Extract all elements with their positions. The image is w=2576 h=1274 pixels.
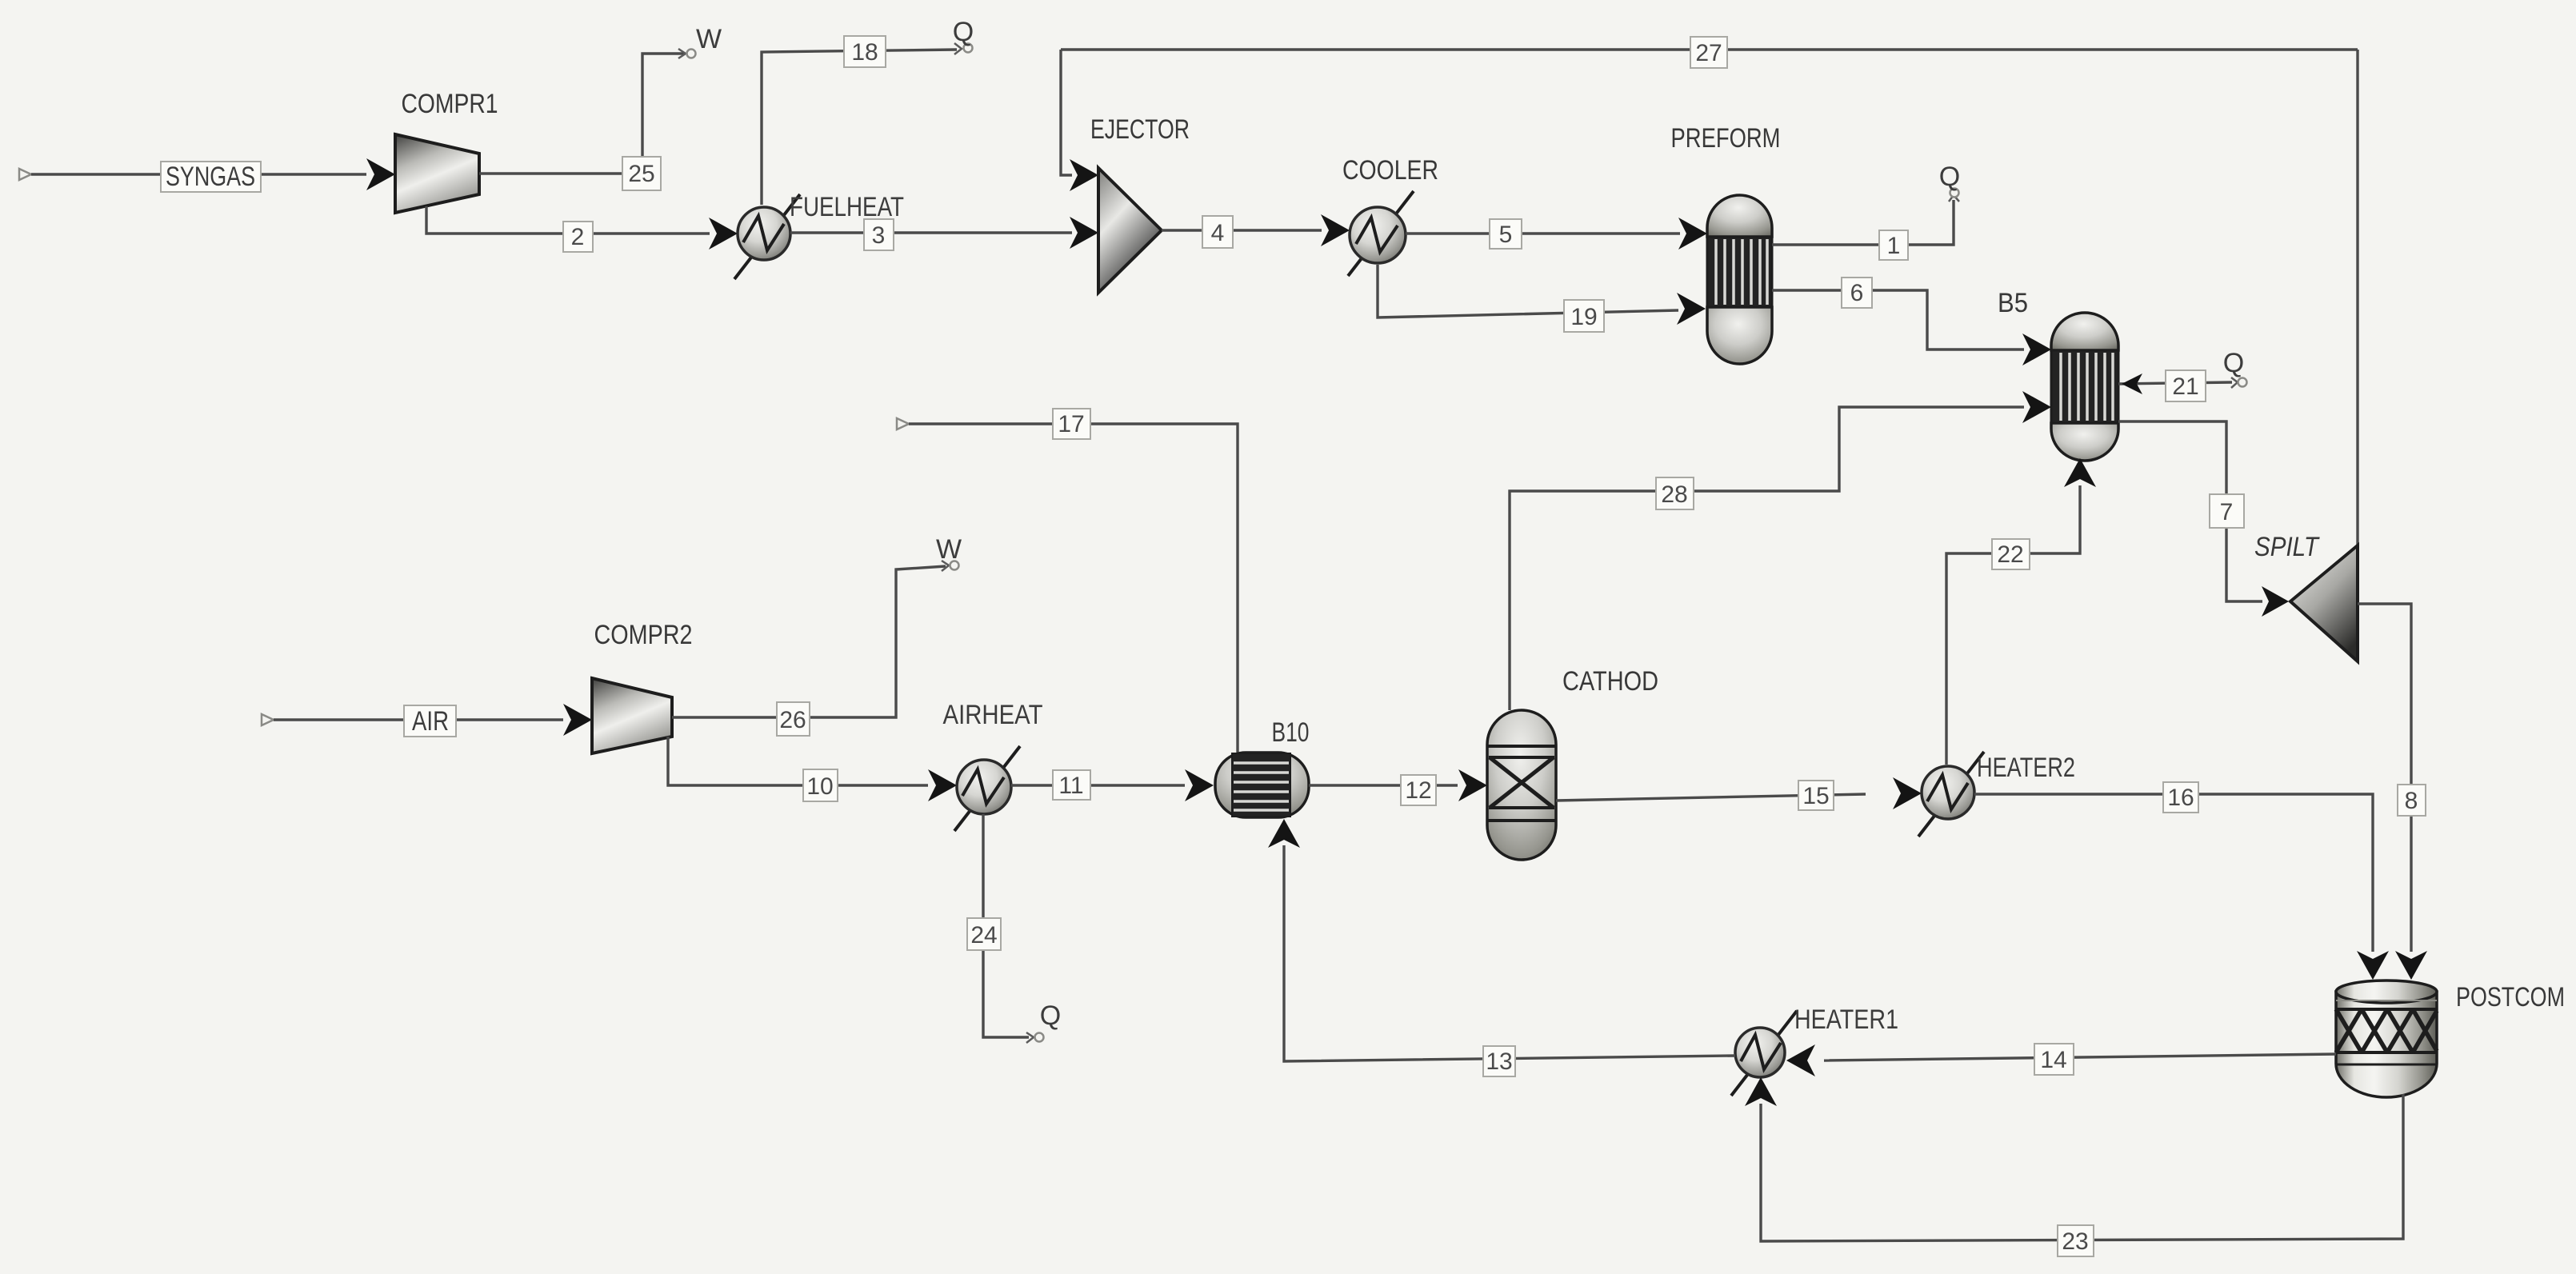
label box 14	[2034, 1044, 2074, 1075]
label box 28	[1656, 477, 1694, 509]
arrow into PREFORM stream 19	[1677, 293, 1706, 325]
arrow into EJECTOR stream 27	[1070, 159, 1098, 191]
compressor COMPR1	[395, 134, 479, 213]
heater AIRHEAT	[954, 746, 1020, 831]
arrow into FUELHEAT	[709, 218, 738, 250]
svg-text:26: 26	[779, 707, 806, 733]
feed symbol SYNGAS inlet	[19, 169, 31, 180]
label box 7	[2210, 494, 2244, 528]
svg-text:14: 14	[2040, 1047, 2066, 1073]
svg-text:11: 11	[1058, 773, 1083, 799]
arrow into B5 stream 28	[2022, 391, 2051, 423]
arrow into B5 stream 6	[2022, 333, 2051, 365]
arrow on stream 21 into B5	[2122, 373, 2142, 394]
wire stream 7	[2118, 421, 2262, 601]
reactor B5	[2051, 313, 2118, 461]
arrow into HEATER1 stream 23	[1745, 1077, 1777, 1106]
heat terminal Q of FUELHEAT	[953, 17, 974, 54]
svg-text:COOLER: COOLER	[1342, 155, 1438, 186]
label box 24	[967, 918, 1001, 950]
svg-text:W: W	[696, 24, 722, 54]
svg-text:B10: B10	[1272, 717, 1310, 748]
arrow into B10 stream 11	[1185, 769, 1214, 801]
svg-text:FUELHEAT: FUELHEAT	[790, 192, 904, 222]
feed symbol AIR inlet	[262, 714, 274, 725]
label box 6	[1842, 278, 1872, 308]
svg-text:23: 23	[2062, 1228, 2088, 1255]
wire stream 10	[668, 737, 928, 785]
label box 12	[1401, 775, 1436, 805]
wire stream AIR	[274, 718, 563, 721]
label box 23	[2058, 1225, 2094, 1256]
svg-text:W: W	[936, 534, 962, 565]
heat terminal Q of B5	[2223, 348, 2247, 388]
wire stream 4	[1162, 229, 1322, 231]
label box 2	[563, 222, 593, 252]
svg-text:17: 17	[1058, 411, 1084, 437]
combustor POSTCOM	[2336, 980, 2437, 1097]
svg-text:AIR: AIR	[412, 706, 449, 737]
label box 18	[844, 36, 886, 67]
label box AIR	[404, 705, 456, 737]
wire stream 26 to work terminal	[672, 566, 946, 717]
svg-text:Q: Q	[2223, 348, 2244, 378]
label box SYNGAS	[161, 162, 261, 192]
svg-text:Q: Q	[953, 17, 974, 47]
svg-text:24: 24	[970, 922, 997, 949]
heater HEATER2	[1918, 752, 1984, 837]
label box 27	[1690, 37, 1727, 68]
arrow into POSTCOM stream 16	[2357, 951, 2389, 980]
arrow into AIRHEAT	[928, 769, 957, 801]
wire stream 27 drop into EJECTOR	[1061, 50, 1072, 175]
svg-text:13: 13	[1486, 1048, 1512, 1075]
svg-text:22: 22	[1997, 541, 2023, 568]
wire stream 22	[1946, 485, 2080, 765]
label box 15	[1798, 781, 1834, 810]
work terminal W of COMPR2	[936, 534, 962, 571]
heat exchanger B10	[1215, 753, 1309, 817]
heater HEATER1	[1731, 1011, 1797, 1096]
wire stream 27 top run	[1061, 48, 2358, 50]
wire stream 24 to heat terminal	[983, 814, 1029, 1037]
svg-text:3: 3	[872, 222, 886, 249]
svg-text:6: 6	[1850, 280, 1864, 306]
wire stream 11	[1011, 784, 1185, 786]
wire stream 27 right drop to SPILT	[2356, 50, 2358, 545]
arrow into CATHOD stream 12	[1458, 769, 1487, 801]
ejector EJECTOR	[1098, 168, 1162, 293]
svg-text:Q: Q	[1939, 162, 1960, 192]
wire stream 3	[790, 231, 1072, 234]
svg-text:HEATER1: HEATER1	[1794, 1004, 1898, 1035]
arrow into B5 stream 22	[2064, 458, 2096, 487]
svg-text:1: 1	[1887, 233, 1901, 259]
heat terminal Q of PREFORM	[1939, 162, 1960, 202]
feed symbol stream 17	[897, 418, 909, 429]
arrow into HEATER1 stream 14	[1786, 1044, 1815, 1076]
svg-text:SPILT: SPILT	[2254, 532, 2320, 562]
work terminal W of COMPR1	[678, 24, 722, 58]
label box 10	[803, 769, 838, 801]
label box 26	[777, 702, 810, 736]
arrow into POSTCOM stream 8	[2395, 951, 2427, 980]
wire stream 5	[1406, 232, 1680, 234]
wire stream 8	[2358, 604, 2411, 952]
wire stream 13	[1284, 845, 1735, 1061]
svg-text:12: 12	[1405, 777, 1431, 804]
label box 3	[864, 219, 894, 250]
reactor CATHOD	[1487, 710, 1556, 860]
svg-text:25: 25	[628, 161, 654, 187]
svg-text:7: 7	[2220, 499, 2234, 525]
heat terminal Q of AIRHEAT	[1026, 1000, 1061, 1043]
label box 4	[1202, 216, 1233, 248]
svg-text:10: 10	[806, 773, 833, 800]
label box 1	[1879, 230, 1908, 260]
splitter SPILT	[2290, 545, 2358, 661]
svg-text:4: 4	[1211, 220, 1225, 246]
wire stream 25 to work terminal	[479, 54, 685, 174]
arrow into COOLER	[1321, 214, 1350, 246]
label box 13	[1483, 1046, 1515, 1076]
wire stream SYNGAS	[31, 173, 366, 175]
svg-text:B5: B5	[1998, 288, 2028, 318]
svg-text:5: 5	[1499, 222, 1513, 248]
wire stream 1 to heat terminal	[1772, 200, 1954, 245]
cooler COOLER	[1348, 191, 1414, 276]
svg-text:HEATER2: HEATER2	[1977, 753, 2075, 783]
svg-text:21: 21	[2172, 373, 2198, 400]
wire stream 23	[1761, 1094, 2403, 1241]
label box 17	[1053, 409, 1090, 439]
svg-text:27: 27	[1695, 40, 1722, 66]
wire stream 19	[1378, 265, 1678, 318]
svg-text:Q: Q	[1040, 1000, 1061, 1031]
arrow into COMPR2	[563, 704, 592, 736]
label box 21	[2166, 370, 2206, 401]
svg-text:POSTCOM: POSTCOM	[2456, 982, 2565, 1012]
svg-text:18: 18	[851, 39, 878, 66]
wire stream 12	[1309, 784, 1458, 786]
label box 8	[2398, 785, 2426, 816]
label box 11	[1053, 770, 1090, 800]
wire stream 28	[1510, 407, 2024, 710]
wire stream 16	[1974, 794, 2373, 952]
wire stream 18 to heat terminal	[762, 50, 957, 205]
label box 16	[2163, 782, 2198, 813]
wire stream 21 to heat terminal	[2118, 382, 2232, 384]
arrow into B10 stream 13	[1268, 819, 1300, 848]
wire stream 6	[1772, 290, 2024, 349]
svg-text:PREFORM: PREFORM	[1671, 123, 1781, 154]
wire stream 15	[1556, 794, 1866, 801]
arrow into EJECTOR stream 3	[1070, 217, 1098, 249]
wire stream 2	[426, 206, 710, 234]
svg-text:COMPR2: COMPR2	[594, 620, 693, 650]
svg-text:AIRHEAT: AIRHEAT	[943, 700, 1043, 730]
wire stream 14	[1824, 1054, 2336, 1060]
svg-text:28: 28	[1661, 481, 1687, 508]
svg-text:15: 15	[1802, 783, 1829, 809]
svg-text:EJECTOR: EJECTOR	[1090, 114, 1190, 145]
svg-text:19: 19	[1570, 304, 1597, 330]
arrow into SPILT	[2262, 586, 2289, 617]
label box 22	[1992, 539, 2030, 569]
arrow into PREFORM stream 5	[1678, 218, 1707, 250]
reactor PREFORM	[1707, 195, 1772, 364]
svg-text:COMPR1: COMPR1	[402, 89, 498, 119]
svg-text:CATHOD: CATHOD	[1562, 666, 1658, 697]
compressor COMPR2	[592, 678, 672, 753]
arrow into HEATER2	[1893, 777, 1922, 809]
svg-text:2: 2	[571, 224, 585, 250]
label box 5	[1490, 219, 1522, 249]
svg-text:8: 8	[2405, 788, 2418, 814]
wire stream 17	[909, 424, 1238, 753]
svg-text:16: 16	[2167, 785, 2194, 811]
arrow into COMPR1	[366, 158, 395, 190]
label box 25	[622, 157, 661, 190]
heater FUELHEAT	[734, 194, 800, 279]
svg-text:SYNGAS: SYNGAS	[166, 162, 255, 192]
label box 19	[1564, 300, 1604, 332]
